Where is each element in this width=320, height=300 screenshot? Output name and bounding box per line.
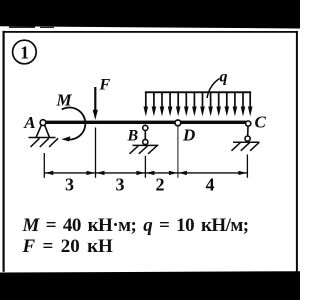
q leader line <box>207 79 220 99</box>
svg-text:3: 3 <box>116 174 125 194</box>
svg-text:F = 20 кН: F = 20 кН <box>22 236 114 257</box>
support B lower pin <box>143 139 148 144</box>
frame right border <box>296 31 298 272</box>
dimension extension line at B <box>144 156 146 178</box>
dimension line <box>44 172 247 174</box>
dimension arrowheads <box>45 171 247 175</box>
dimension extension line at D <box>177 127 179 178</box>
svg-text:3: 3 <box>65 174 74 194</box>
svg-text:B: B <box>127 128 139 145</box>
force F arrowhead <box>93 110 98 120</box>
svg-text:1: 1 <box>20 43 29 63</box>
support B ground line <box>133 144 159 146</box>
beam <box>43 121 246 124</box>
svg-text:4: 4 <box>206 174 215 194</box>
dimension extension line at C <box>246 155 248 178</box>
support B upper pin <box>143 125 148 130</box>
support C link <box>247 126 249 136</box>
support A hatching <box>31 138 59 147</box>
frame left border <box>3 31 5 272</box>
support A triangle <box>36 125 49 137</box>
top black bar <box>0 0 300 29</box>
svg-text:M: M <box>56 91 73 110</box>
distributed load arrows <box>146 92 250 108</box>
dimension extension line at F <box>95 128 97 178</box>
support C upper pin <box>246 121 251 126</box>
frame top border <box>3 31 299 33</box>
support A ground line <box>29 137 56 139</box>
bottom black bar <box>0 271 300 300</box>
moment arrowhead <box>61 136 70 141</box>
hinge D <box>175 120 181 126</box>
support B link <box>144 131 146 140</box>
dimension extension line at A <box>43 153 45 178</box>
svg-text:q: q <box>220 69 228 86</box>
svg-text:A: A <box>23 113 35 132</box>
support C hatching <box>232 143 259 151</box>
support A pin <box>40 120 46 126</box>
svg-text:M = 40 кН·м; q = 10 кН/м;: M = 40 кН·м; q = 10 кН/м; <box>22 215 249 236</box>
support B hatching <box>130 146 157 154</box>
svg-text:2: 2 <box>156 174 165 194</box>
scan specks under top bar <box>9 26 35 28</box>
moment arc M <box>62 107 86 139</box>
distributed load top bar <box>145 91 251 93</box>
support C ground line <box>233 141 260 143</box>
support C lower pin <box>245 136 250 141</box>
force F arrow shaft <box>94 87 96 112</box>
variant circle <box>13 40 37 64</box>
svg-text:F: F <box>99 76 111 93</box>
svg-text:C: C <box>255 113 267 132</box>
svg-text:D: D <box>182 126 195 145</box>
